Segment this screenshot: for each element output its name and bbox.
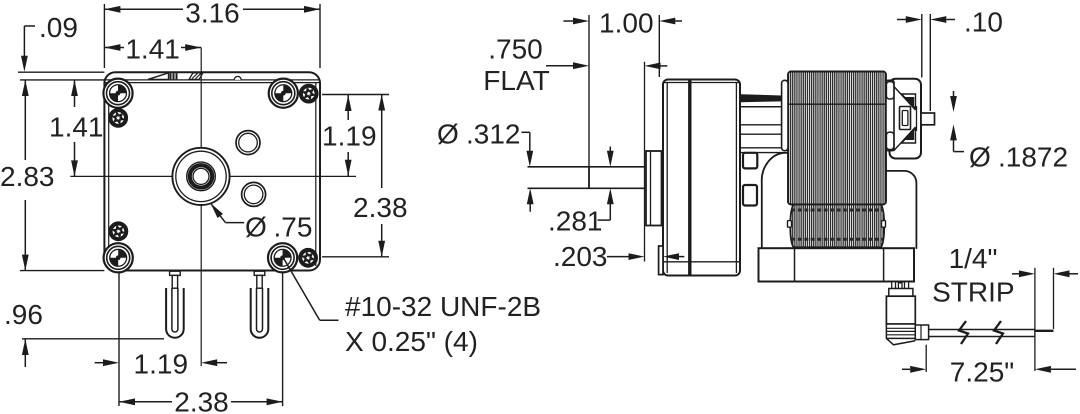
svg-text:7.25": 7.25" (950, 357, 1014, 388)
svg-text:1.41: 1.41 (49, 112, 104, 143)
svg-text:2.38: 2.38 (353, 192, 408, 223)
svg-text:1.19: 1.19 (134, 349, 189, 380)
svg-text:#10-32 UNF-2B: #10-32 UNF-2B (345, 291, 541, 322)
svg-text:Ø: Ø (437, 119, 459, 150)
svg-text:Ø: Ø (245, 212, 267, 243)
svg-text:.1872: .1872 (998, 142, 1068, 173)
svg-text:1/4": 1/4" (949, 243, 998, 274)
svg-text:3.16: 3.16 (185, 0, 240, 29)
svg-text:.312: .312 (466, 119, 521, 150)
svg-text:.75: .75 (274, 212, 313, 243)
svg-text:.09: .09 (39, 12, 78, 43)
svg-text:1.00: 1.00 (599, 8, 654, 39)
svg-text:.203: .203 (553, 241, 608, 272)
svg-text:FLAT: FLAT (483, 65, 549, 96)
svg-text:1.19: 1.19 (322, 121, 377, 152)
svg-text:.281: .281 (548, 206, 603, 237)
svg-text:STRIP: STRIP (932, 277, 1014, 308)
svg-text:2.83: 2.83 (0, 161, 55, 192)
svg-text:1.41: 1.41 (125, 34, 180, 65)
svg-text:Ø: Ø (969, 142, 991, 173)
svg-text:.10: .10 (964, 7, 1003, 38)
svg-text:2.38: 2.38 (174, 387, 229, 414)
svg-text:.750: .750 (488, 34, 543, 65)
svg-text:.96: .96 (4, 299, 43, 330)
svg-text:X 0.25" (4): X 0.25" (4) (345, 326, 478, 357)
